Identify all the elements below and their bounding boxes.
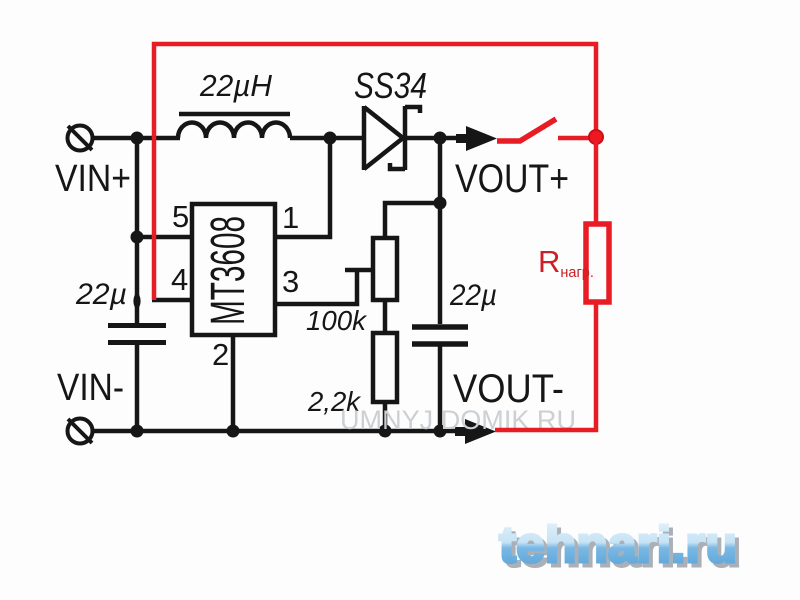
svg-text:22µH: 22µH (199, 68, 273, 103)
wire output junction down to feedback tap (438, 138, 443, 324)
switch SW1 blade (497, 119, 556, 141)
pin 5 wire (137, 235, 192, 240)
red wire top (load loop) (152, 42, 598, 47)
wire diode to output node (406, 136, 463, 141)
VOUT+ output arrow (456, 126, 497, 151)
svg-text:5: 5 (172, 199, 189, 234)
resistor R load body (586, 224, 609, 302)
node SW junction (324, 132, 337, 145)
switch SW1 right stub (558, 136, 590, 141)
wire R2 bottom to ground rail (383, 402, 388, 430)
wire inductor to diode D1 (290, 136, 364, 141)
VOUT- output arrow (455, 419, 496, 444)
node rail C1 junction (131, 425, 144, 438)
terminal VIN+ (68, 126, 93, 151)
node rail pin2 junction (227, 425, 240, 438)
svg-text:22µ: 22µ (75, 278, 127, 311)
red wire load resistor down (594, 302, 599, 432)
node input junction (131, 132, 144, 145)
svg-text:MT3608: MT3608 (202, 216, 255, 325)
inductor L1 22µH (178, 114, 290, 138)
svg-text:VIN-: VIN- (57, 367, 124, 409)
svg-text:VOUT+: VOUT+ (455, 157, 569, 201)
junction blob on input wire (133, 294, 140, 309)
node pin5 tap junction (131, 231, 144, 244)
wire VIN+ terminal to inductor L1 (93, 136, 180, 141)
wire C1 bottom to ground rail (135, 345, 140, 430)
red wire left (to EN pin 4) (152, 42, 157, 300)
capacitor C2 22µ plates (412, 327, 468, 344)
diode D1 SS34 (Schottky) (364, 106, 420, 170)
node switch output (red) (589, 130, 603, 144)
node feedback tap junction (434, 197, 447, 210)
svg-text:22µ: 22µ (449, 279, 497, 312)
node output junction (434, 132, 447, 145)
red wire bottom to VOUT- arrow (495, 428, 598, 433)
svg-text:100k: 100k (306, 305, 368, 336)
resistor R2 2,2k body (373, 333, 397, 402)
red wire right upper (594, 42, 599, 137)
resistor R1 100k body (373, 238, 397, 300)
svg-text:2: 2 (212, 337, 229, 372)
svg-text:SS34: SS34 (354, 65, 427, 106)
wire R1 top to output node (385, 203, 440, 238)
svg-text:tehnari.ru: tehnari.ru (499, 516, 737, 573)
wire input junction down to C1 (135, 138, 140, 323)
capacitor C1 22µ plates (108, 326, 166, 343)
svg-text:VIN+: VIN+ (55, 158, 131, 200)
node rail R2 junction (379, 425, 392, 438)
svg-text:1: 1 (282, 200, 299, 235)
pin 3 wire to potentiometer wiper (275, 270, 372, 304)
wire R1 to R2 (383, 300, 388, 333)
pin 4 wire (152, 298, 192, 303)
wire C2 bottom to ground rail (438, 346, 443, 430)
svg-text:4: 4 (171, 262, 188, 297)
svg-text:3: 3 (282, 264, 299, 299)
IC U1 MT3608 body (192, 204, 275, 335)
terminal VIN- (68, 419, 93, 444)
pin 2 wire (231, 335, 236, 430)
node rail C2 junction (434, 425, 447, 438)
red wire node to load resistor (594, 137, 599, 226)
wire SW junction down to pin 1 (275, 138, 330, 237)
ground rail wire (93, 429, 463, 434)
